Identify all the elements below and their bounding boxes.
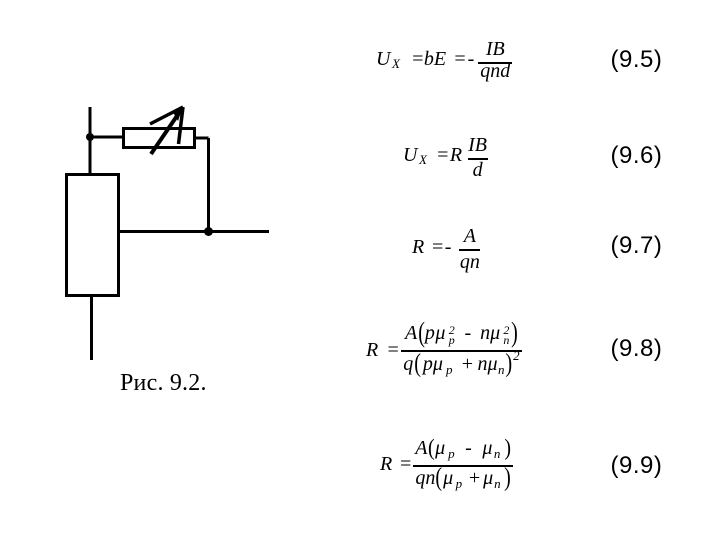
wire bottom <box>90 296 93 360</box>
wire node to potentiometer <box>90 136 124 139</box>
potentiometer arrow tip <box>173 107 184 122</box>
potentiometer arrow barb right <box>179 107 184 144</box>
label (9.8) <box>611 335 663 363</box>
potentiometer R1 body <box>124 129 195 148</box>
potentiometer arrow barb left <box>150 107 183 124</box>
equation 9.6 <box>403 134 488 182</box>
equation 9.9 <box>380 440 513 492</box>
node A junction dot <box>86 133 94 141</box>
label (9.7) <box>611 232 663 260</box>
equation 9.8 <box>366 322 522 378</box>
label (9.5) <box>611 46 663 74</box>
resistor R2 body (sample) <box>67 175 119 296</box>
caption Рис. 9.2. <box>120 370 207 397</box>
wire potentiometer right stub <box>194 137 209 140</box>
wire down from potentiometer to junction <box>207 138 210 232</box>
node B junction dot <box>204 227 213 236</box>
wire horizontal output <box>120 230 269 233</box>
label (9.6) <box>611 142 663 170</box>
wire top vertical <box>89 107 92 174</box>
potentiometer arrow shaft <box>151 110 181 154</box>
circuit schematic figure <box>0 0 300 420</box>
label (9.9) <box>611 452 663 480</box>
equation 9.7 <box>412 225 480 273</box>
equation 9.5 <box>376 38 512 86</box>
